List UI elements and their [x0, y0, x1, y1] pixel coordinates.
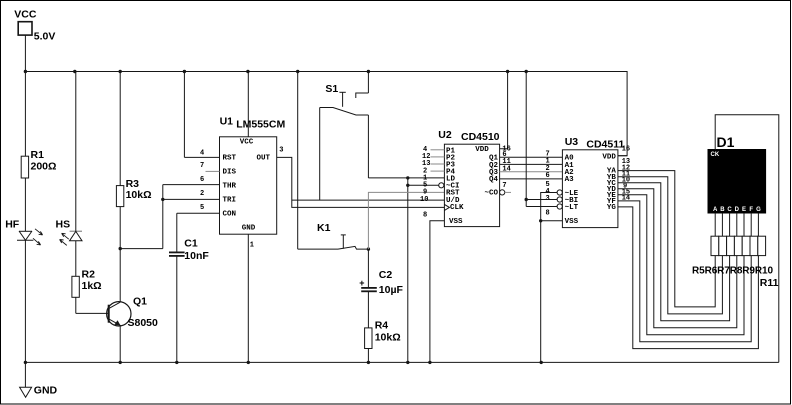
svg-text:10µF: 10µF [379, 284, 404, 296]
wire LD junction down to rail [407, 178, 409, 363]
wire OUT to CLK [277, 157, 445, 207]
D1 segment pin D [736, 213, 738, 236]
capacitor C1 [169, 213, 220, 362]
wire K1 to RST row (grey) [368, 192, 444, 249]
U1 pin RST 4 with wire to bus [184, 72, 219, 158]
svg-text:CD4510: CD4510 [461, 131, 500, 143]
svg-text:YG: YG [607, 204, 617, 212]
svg-text:R5R6R7R8R9R10: R5R6R7R8R9R10 [692, 266, 773, 277]
wire YE to R9 [618, 195, 744, 335]
svg-text:Q1: Q1 [133, 295, 147, 307]
svg-text:10kΩ: 10kΩ [126, 189, 152, 201]
node bus-S1 [367, 70, 370, 73]
svg-text:F: F [749, 207, 753, 213]
svg-text:D1: D1 [717, 134, 735, 150]
svg-text:U3: U3 [565, 136, 579, 148]
svg-text:6: 6 [200, 176, 204, 184]
node R3-Q1-THR junction [119, 247, 122, 250]
node bus-U1RST [183, 70, 186, 73]
D1 segment pin A [714, 213, 716, 236]
resistor R6 [719, 236, 727, 255]
svg-text:U1: U1 [220, 116, 234, 128]
D1 segment pin B [721, 213, 723, 236]
wire YD to R8 [618, 189, 737, 328]
svg-text:1: 1 [250, 241, 254, 249]
svg-text:A3: A3 [565, 176, 575, 184]
svg-text:200Ω: 200Ω [31, 160, 57, 172]
node bus-K1 [296, 70, 299, 73]
svg-text:8: 8 [546, 210, 550, 218]
svg-text:~CO: ~CO [485, 190, 499, 198]
wire ground rail [25, 361, 779, 363]
svg-text:1kΩ: 1kΩ [82, 280, 102, 292]
node rail-Q1 [119, 361, 122, 364]
op-amp U1 LM555CM timer box [220, 137, 277, 234]
svg-text:CK: CK [711, 152, 720, 158]
node LD junction [406, 176, 409, 179]
op-amp U3 CD4511 decoder box [562, 150, 618, 228]
D1 segment pin G [757, 213, 759, 236]
svg-text:S1: S1 [325, 83, 338, 95]
svg-text:TRI: TRI [223, 196, 237, 204]
svg-text:C1: C1 [184, 238, 198, 250]
svg-text:HF: HF [5, 219, 20, 231]
svg-text:R1: R1 [31, 149, 45, 161]
svg-text:Q4: Q4 [489, 176, 499, 184]
wire YG to R11 [618, 207, 759, 349]
node bus-U2VDD [506, 70, 509, 73]
wire YF to R10 [618, 201, 751, 342]
U2 CO bubble and stub [500, 190, 511, 195]
U2 pin P4 stub [431, 170, 445, 172]
node CI junction [406, 184, 409, 187]
switch K1 [298, 72, 369, 250]
node bus-HS [73, 70, 76, 73]
svg-text:K1: K1 [317, 222, 331, 234]
LED HS [60, 72, 82, 277]
U2 pin VDD wire to bus [500, 72, 508, 149]
svg-text:8: 8 [423, 212, 427, 220]
svg-text:VDD: VDD [475, 146, 489, 154]
svg-text:VSS: VSS [565, 218, 579, 226]
U2 pin VSS wire to rail [430, 221, 445, 363]
resistor R2 [72, 276, 109, 313]
D1 segment pin F [750, 213, 752, 236]
wire BI LT to bus [526, 72, 557, 207]
resistor R7 [727, 236, 735, 255]
svg-text:THR: THR [223, 182, 237, 190]
wire Q1 to A0 [500, 156, 563, 158]
node K1-C2-RST junction [367, 247, 370, 250]
node bus-U3BI [525, 70, 528, 73]
display D1 seven segment [708, 150, 766, 214]
svg-text:GND: GND [34, 385, 58, 397]
node rail-LD [406, 361, 409, 364]
node bus-U1VCC [246, 70, 249, 73]
U2 CLK wedge [444, 204, 449, 210]
svg-text:A: A [713, 207, 718, 213]
transistor Q1 [107, 302, 131, 363]
wire YA to R5 [618, 171, 715, 307]
node rail-GND [24, 361, 27, 364]
svg-text:R11: R11 [760, 277, 779, 289]
svg-text:10: 10 [420, 196, 428, 204]
svg-text:VCC: VCC [14, 8, 37, 20]
VCC power symbol [18, 22, 32, 72]
svg-text:7: 7 [502, 182, 506, 190]
svg-text:OUT: OUT [257, 154, 271, 162]
U2 pin P2 stub [431, 156, 445, 158]
svg-text:CON: CON [223, 210, 237, 218]
svg-text:C: C [727, 207, 732, 213]
svg-text:~LT: ~LT [565, 204, 579, 212]
U2 pin P3 stub [431, 163, 445, 165]
D1 segment pin C [729, 213, 731, 236]
capacitor C2 polarized [361, 249, 377, 328]
U3 pin VSS wire to rail [541, 221, 563, 363]
U3 LT bubble [557, 204, 562, 209]
wire Q2 to A1 [500, 163, 563, 165]
svg-text:10nF: 10nF [184, 250, 209, 262]
svg-text:U2: U2 [438, 129, 452, 141]
U2 CI bubble [439, 183, 444, 188]
wire THR-TRI-junction [120, 185, 219, 249]
svg-text:VDD: VDD [602, 153, 616, 161]
wire LE to VSS [541, 193, 557, 221]
node LE-VSS junction [539, 219, 542, 222]
wire YB to R6 [618, 177, 723, 314]
U3 pin VDD stub from bus corner [618, 155, 627, 157]
svg-text:VCC: VCC [240, 138, 254, 146]
U3 BI bubble [557, 197, 562, 202]
svg-text:RST: RST [223, 154, 237, 162]
D1 segment pin E [743, 213, 745, 236]
svg-text:VSS: VSS [449, 218, 463, 226]
svg-text:GND: GND [242, 224, 256, 232]
svg-text:4: 4 [200, 149, 204, 157]
svg-text:CD4511: CD4511 [586, 138, 624, 150]
svg-text:R4: R4 [375, 319, 389, 331]
wire U/D row [292, 199, 445, 201]
op-amp U2 CD4510 counter box [444, 144, 499, 226]
node rail-U1GND [247, 361, 250, 364]
node rail-U3VSS [540, 361, 543, 364]
svg-text:C2: C2 [379, 269, 393, 281]
svg-text:G: G [756, 207, 761, 213]
resistor R3 [116, 72, 123, 303]
svg-text:7: 7 [200, 162, 204, 170]
node bus-R1 [24, 70, 27, 73]
svg-text:14: 14 [502, 165, 510, 173]
wire Q3 to A2 (grey) [500, 171, 563, 173]
node rail-R4 [367, 361, 370, 364]
U3 LE bubble [557, 190, 562, 195]
resistor R9 [742, 236, 750, 255]
svg-text:5.0V: 5.0V [34, 31, 56, 43]
svg-text:6: 6 [546, 172, 550, 180]
U1 pin VCC (8) [247, 72, 249, 137]
node THR-TRI [161, 198, 164, 201]
svg-text:D: D [735, 207, 740, 213]
node BI junction [525, 198, 528, 201]
LED HF [17, 229, 43, 363]
resistor R5 [711, 236, 719, 255]
svg-text:3: 3 [279, 146, 283, 154]
U1 pin GND (1) [247, 234, 249, 362]
svg-text:HS: HS [56, 219, 71, 231]
U2 pin P1 stub [431, 149, 445, 151]
svg-text:S8050: S8050 [128, 317, 159, 329]
resistor R4 [365, 328, 372, 363]
wire YC to R7 [618, 183, 730, 321]
svg-text:E: E [742, 207, 746, 213]
svg-text:+: + [359, 278, 364, 288]
wire to CI bubble [408, 184, 439, 186]
wire Q4 to A3 [500, 178, 563, 180]
U1 pin DIS 7 stub [206, 170, 220, 172]
ground [20, 362, 32, 397]
switch S1 [320, 72, 369, 201]
svg-text:DIS: DIS [223, 168, 237, 176]
resistor R1 [21, 72, 28, 232]
svg-text:B: B [720, 207, 725, 213]
node bus-R3 [119, 70, 122, 73]
svg-text:16: 16 [622, 146, 630, 154]
svg-text:2: 2 [200, 190, 204, 198]
wire D1 common cathode loop to rail [715, 115, 779, 363]
svg-text:5: 5 [200, 204, 204, 212]
wire top VCC bus [25, 72, 627, 156]
svg-text:10kΩ: 10kΩ [375, 331, 401, 343]
node rail-C1 [175, 361, 178, 364]
resistor R11 [758, 236, 766, 255]
wire LD row [368, 177, 444, 179]
svg-text:CLK: CLK [450, 204, 464, 212]
resistor R8 [734, 236, 742, 255]
node rail-U2VSS [428, 361, 431, 364]
svg-text:LM555CM: LM555CM [236, 118, 285, 130]
resistor R10 [750, 236, 758, 255]
